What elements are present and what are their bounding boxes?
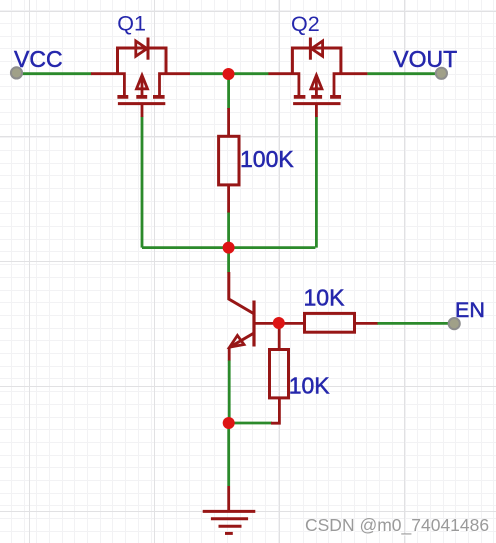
resistor R1 100K [219, 108, 239, 213]
svg-text:10K: 10K [289, 372, 331, 398]
wire R1 to junction B [227, 212, 230, 248]
wire R2 to EN [377, 322, 449, 325]
junction at Q3 base [273, 317, 285, 329]
svg-text:CSDN @m0_74041486: CSDN @m0_74041486 [305, 515, 489, 536]
wire bottom rail [142, 246, 315, 249]
wire VCC to Q1 [17, 72, 92, 75]
wire junction C to ground [227, 423, 230, 486]
junction B [223, 242, 235, 254]
resistor R2 10K (horizontal, to EN) [283, 313, 378, 332]
terminal pin VCC [11, 67, 22, 78]
wire Q1 gate to bottom rail [141, 117, 144, 248]
MOSFET Q2 [268, 38, 367, 118]
svg-text:Q2: Q2 [291, 12, 320, 36]
svg-text:VCC: VCC [14, 46, 63, 72]
junction C [223, 417, 235, 429]
wire junction A to R1 [227, 74, 230, 109]
wire Q2 gate to bottom rail [315, 117, 318, 248]
wire junction B to Q3 collector [227, 248, 230, 273]
wire Q3 emitter to junction C [228, 360, 231, 423]
terminal pin EN [449, 318, 460, 329]
wire junction C to R3 bottom [229, 422, 272, 425]
wire Q2 to VOUT [367, 72, 441, 75]
MOSFET Q1 [91, 38, 190, 118]
wire junction A to Q2 [229, 72, 269, 75]
terminal pin VOUT [436, 68, 447, 79]
resistor R3 10K (vertical) [270, 327, 289, 423]
svg-text:Q1: Q1 [117, 12, 146, 36]
junction A [223, 68, 235, 80]
svg-text:EN: EN [455, 298, 485, 322]
wire Q1 to junction A [190, 72, 229, 75]
svg-text:100K: 100K [240, 146, 294, 172]
svg-text:10K: 10K [304, 284, 346, 310]
transistor Q3 (NPN) [229, 272, 276, 361]
svg-text:VOUT: VOUT [393, 46, 457, 72]
ground [203, 486, 256, 533]
